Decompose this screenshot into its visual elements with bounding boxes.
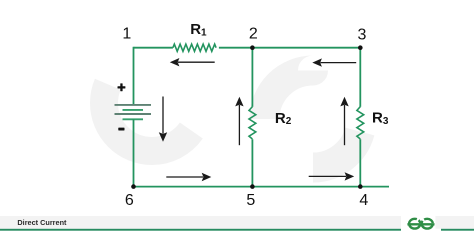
resistor R3 xyxy=(357,107,364,139)
footer strip xyxy=(0,216,474,229)
GeeksforGeeks logo xyxy=(407,219,434,229)
svg-text:3: 3 xyxy=(358,26,367,43)
svg-text:4: 4 xyxy=(359,192,368,209)
footer strip patch right of logo xyxy=(435,216,441,229)
battery B1 plate long bottom xyxy=(115,113,152,115)
battery B1 plate short bottom xyxy=(123,118,144,120)
wire bottom (node6 to stub past node4) xyxy=(134,186,390,188)
wire top right of R1 xyxy=(219,47,360,49)
wire right vertical upper (node3) xyxy=(359,48,361,107)
battery plus sign xyxy=(118,83,126,91)
battery B1 plate short xyxy=(123,109,144,111)
node 6 junction dot xyxy=(131,184,136,189)
resistor R1 xyxy=(173,44,216,51)
current arrow down beside battery xyxy=(159,97,167,142)
wire left vertical lower (battery to node6) xyxy=(133,119,135,186)
current arrow right bottom-right segment xyxy=(309,172,355,180)
watermark right ring xyxy=(265,71,362,168)
node 3 junction dot xyxy=(358,45,363,50)
wire middle vertical upper (node2) xyxy=(251,48,253,107)
svg-text:2: 2 xyxy=(249,26,258,43)
node 5 junction dot xyxy=(250,184,255,189)
wire middle vertical lower (to node5) xyxy=(251,139,253,186)
battery minus sign xyxy=(118,128,124,131)
wire right vertical lower (to node4) xyxy=(359,139,361,186)
current arrow right bottom-left segment xyxy=(166,173,211,181)
watermark left ring xyxy=(104,55,200,151)
svg-text:Direct Current: Direct Current xyxy=(17,218,67,227)
battery B1 plate long top xyxy=(115,104,152,106)
svg-text:6: 6 xyxy=(125,192,134,209)
current arrow left under R1 xyxy=(170,58,215,66)
svg-text:1: 1 xyxy=(122,26,131,43)
wire left vertical upper (node1 to battery) xyxy=(133,47,135,105)
current arrow left top-right segment xyxy=(312,58,356,66)
footer green line xyxy=(0,229,474,231)
wire top (node1-node3) xyxy=(134,47,173,49)
footer logo white box xyxy=(401,208,441,236)
svg-text:5: 5 xyxy=(246,192,255,209)
current arrow up beside R3 xyxy=(340,97,348,145)
current arrow up beside R2 xyxy=(235,97,243,145)
node 4 junction dot xyxy=(358,184,363,189)
node 2 junction dot xyxy=(250,45,255,50)
resistor R2 xyxy=(249,107,256,139)
